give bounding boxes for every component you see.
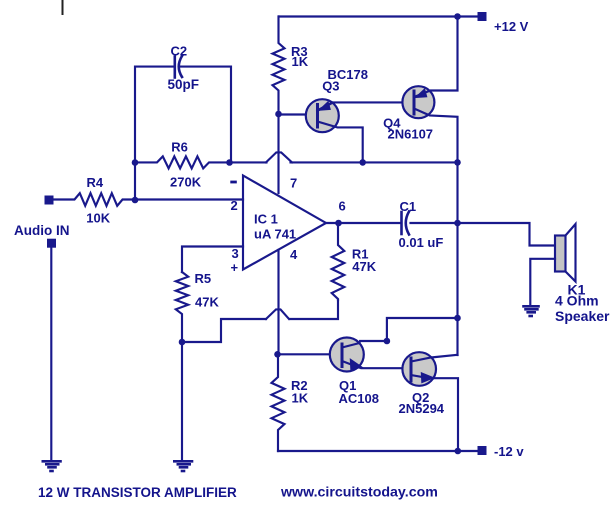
svg-text:www.circuitstoday.com: www.circuitstoday.com <box>280 485 438 501</box>
wire -12V rail <box>278 450 480 452</box>
ground input <box>43 461 61 471</box>
svg-text:4 Ohm: 4 Ohm <box>555 293 599 309</box>
terminal +12V <box>478 12 487 21</box>
svg-text:47K: 47K <box>352 259 376 274</box>
svg-text:+: + <box>231 260 239 275</box>
svg-text:-12 v: -12 v <box>494 444 524 459</box>
wire R5 junction to R1 bottom with hop <box>182 319 266 342</box>
resistor R2 <box>272 354 285 451</box>
svg-text:C2: C2 <box>171 44 188 59</box>
speaker K1 <box>555 236 566 272</box>
wire output line <box>326 222 401 224</box>
svg-text:Audio IN: Audio IN <box>14 223 70 238</box>
ground speaker <box>524 306 539 316</box>
svg-text:IC 1: IC 1 <box>254 212 278 227</box>
transistor Q1 <box>330 338 364 372</box>
transistor Q3 <box>306 99 339 132</box>
terminal -12V <box>478 446 487 455</box>
wire Q3 emitter to Q4 base <box>332 101 414 103</box>
capacitor C2 loop wires <box>135 67 174 200</box>
node feedback right rail <box>454 159 461 166</box>
resistor R5 <box>176 272 188 460</box>
svg-text:6: 6 <box>339 199 346 214</box>
svg-text:4: 4 <box>290 247 298 262</box>
transistor Q2 <box>402 352 436 386</box>
svg-text:C1: C1 <box>400 199 417 214</box>
svg-text:1K: 1K <box>292 54 309 69</box>
svg-text:Q3: Q3 <box>322 79 339 94</box>
wire Q1 collector to rail <box>387 318 458 341</box>
svg-text:R4: R4 <box>87 175 104 190</box>
wire speaker bottom <box>530 259 555 305</box>
node C1 rail <box>454 220 461 227</box>
node Q1 base junction <box>274 351 281 358</box>
svg-text:50pF: 50pF <box>168 77 200 92</box>
capacitor C1 <box>400 212 403 234</box>
ground R5 <box>174 461 192 471</box>
svg-text:1K: 1K <box>292 391 309 406</box>
svg-text:270K: 270K <box>170 175 202 190</box>
capacitor C2 <box>174 57 177 78</box>
pin 2 label <box>230 181 237 184</box>
svg-text:7: 7 <box>290 176 297 191</box>
stray crop mark top-left <box>62 0 64 14</box>
svg-text:0.01 uF: 0.01 uF <box>399 235 444 250</box>
svg-text:2N5294: 2N5294 <box>399 401 445 416</box>
resistor R1 <box>332 223 345 300</box>
node R6 right <box>226 159 233 166</box>
resistor R3 <box>273 17 285 194</box>
wire pin4 down <box>277 250 279 354</box>
wire pin3 to R5 <box>182 247 243 273</box>
svg-text:12 W TRANSISTOR AMPLIFIER: 12 W TRANSISTOR AMPLIFIER <box>38 485 237 500</box>
node output junction <box>335 220 342 227</box>
svg-text:Speaker: Speaker <box>555 308 610 324</box>
svg-text:2N6107: 2N6107 <box>388 127 434 142</box>
svg-text:R5: R5 <box>195 271 212 286</box>
terminal Audio IN <box>47 239 56 248</box>
node R6 left <box>132 159 139 166</box>
svg-text:10K: 10K <box>86 210 110 225</box>
op-amp U1 <box>243 176 326 270</box>
svg-text:R6: R6 <box>171 139 188 154</box>
svg-text:uA 741: uA 741 <box>254 227 296 242</box>
wire top rail +12V <box>279 15 480 17</box>
node -12V rail <box>455 448 462 455</box>
node Q3 collector junction <box>359 159 366 166</box>
node R5 bottom <box>179 339 186 346</box>
wire Q3 base <box>279 113 318 115</box>
svg-text:47K: 47K <box>195 294 219 309</box>
node top rail right <box>454 13 461 20</box>
terminal input R4 <box>45 196 54 205</box>
transistor Q4 <box>402 86 434 118</box>
node Q1 collector junction <box>384 338 391 345</box>
svg-text:2: 2 <box>231 198 238 213</box>
resistor R6 <box>135 156 230 168</box>
wire feedback with hop <box>230 161 267 163</box>
node rail y318 <box>454 315 461 322</box>
node Q3 base junction <box>275 111 282 118</box>
node R4 junction <box>132 197 139 204</box>
wire Q1 base <box>279 353 342 355</box>
wire input ground drop <box>50 248 52 460</box>
svg-text:+12 V: +12 V <box>494 19 529 34</box>
resistor R4 <box>49 193 243 206</box>
svg-text:AC108: AC108 <box>339 391 379 406</box>
svg-text:3: 3 <box>232 246 239 261</box>
